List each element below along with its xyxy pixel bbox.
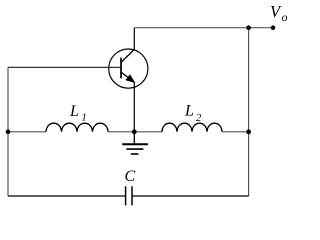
svg-text:L: L [184,103,194,120]
svg-text:C: C [125,168,136,185]
svg-text:L: L [69,103,79,120]
svg-text:2: 2 [196,113,202,124]
svg-text:1: 1 [82,113,87,124]
svg-text:o: o [282,10,288,24]
